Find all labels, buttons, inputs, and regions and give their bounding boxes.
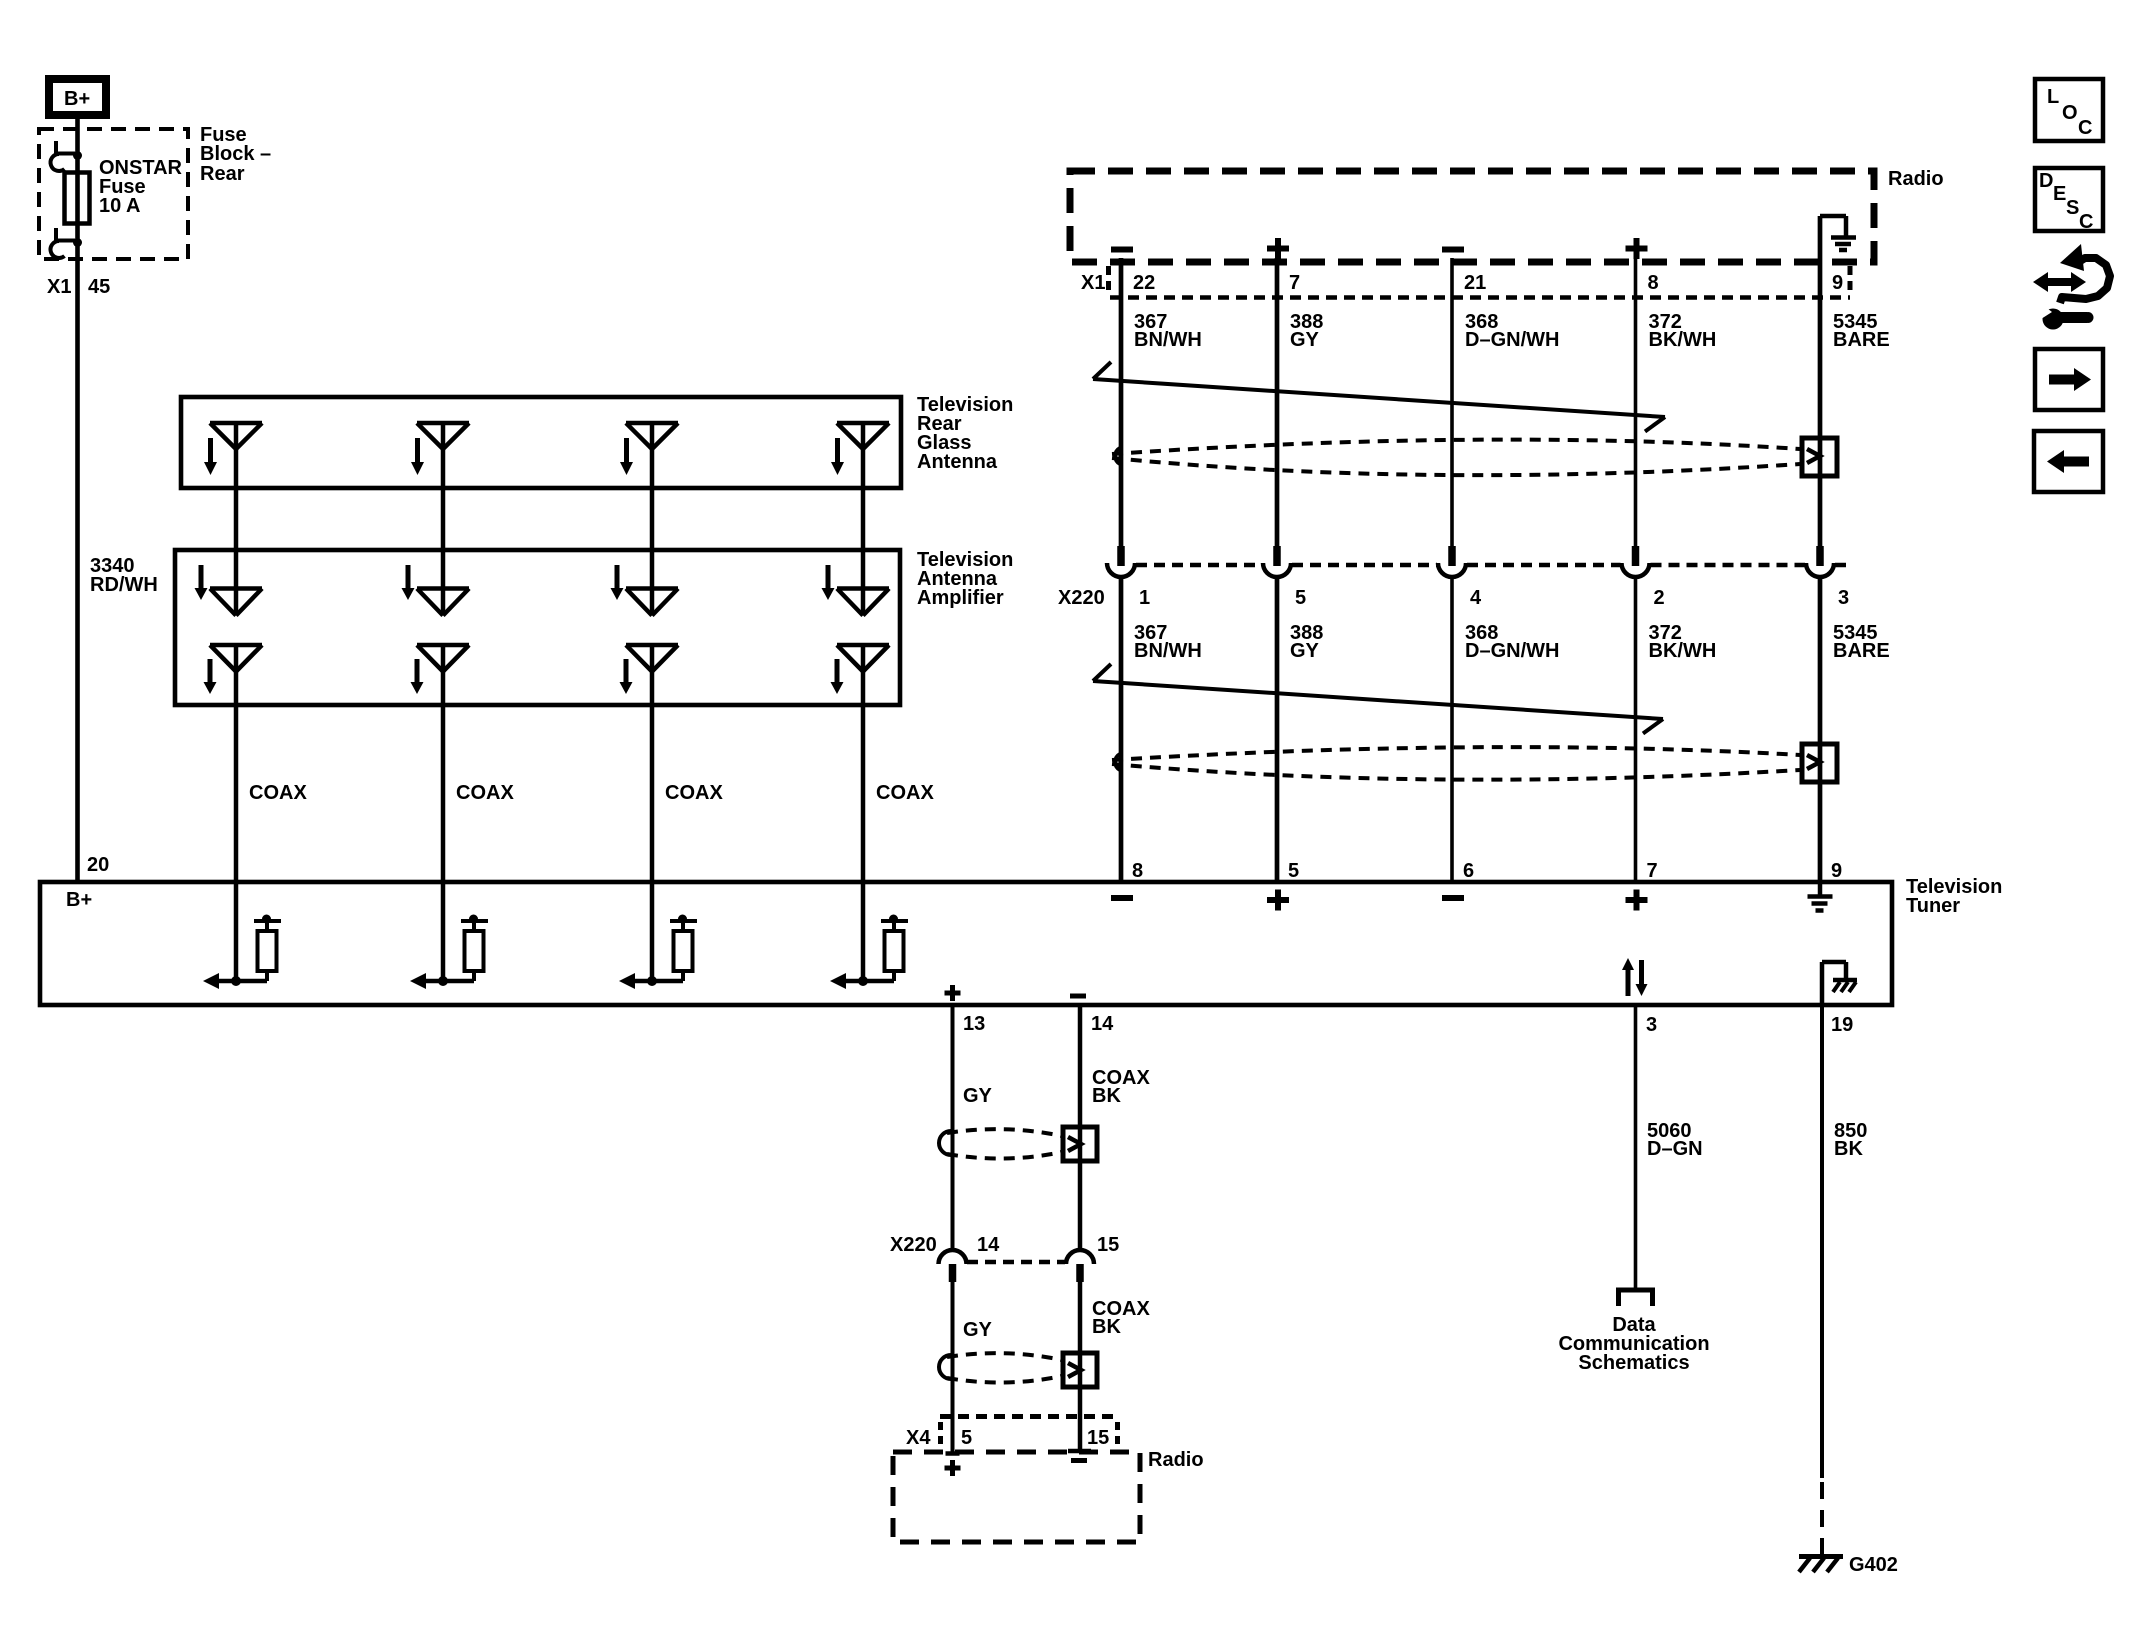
- svg-text:14: 14: [1091, 1013, 1114, 1035]
- tuner terminator network 1 (resistor + arrow): [203, 883, 281, 989]
- svg-text:4: 4: [1470, 587, 1482, 609]
- twisted pair arrow (upper): [1093, 362, 1665, 432]
- svg-text:C: C: [2079, 211, 2093, 233]
- circuit label 368 D&#8211;GN/WH (upper): [1465, 311, 1559, 351]
- svg-text:B+: B+: [66, 889, 92, 911]
- twisted pair ellipse (upper): [1112, 440, 1800, 476]
- X220 row1 terminal pin 4: [1438, 546, 1482, 609]
- wire 3 X220 to tuner: [1450, 577, 1454, 883]
- shield drain box (upper): [1802, 438, 1837, 476]
- radio terminal - (X4 pin 15): [1068, 1451, 1091, 1461]
- wire COAX BK tuner pin 14: [1078, 1005, 1083, 1250]
- svg-text:C: C: [2078, 117, 2092, 139]
- label Television Antenna Amplifier: [917, 549, 1013, 609]
- icon LOC: [2035, 79, 2103, 141]
- circuit label 367 BN/WH (lower): [1134, 622, 1202, 662]
- twisted pair ellipse (lower): [1112, 747, 1800, 780]
- wire 1 radio to X220: [1119, 258, 1124, 546]
- svg-text:Block –: Block –: [200, 143, 271, 165]
- svg-text:BK: BK: [1834, 1138, 1863, 1160]
- svg-text:D–GN/WH: D–GN/WH: [1465, 640, 1559, 662]
- svg-text:X220: X220: [890, 1234, 937, 1256]
- svg-text:20: 20: [87, 854, 109, 876]
- shield drain box (pin15 lower): [1063, 1353, 1097, 1387]
- svg-text:15: 15: [1097, 1234, 1119, 1256]
- svg-text:E: E: [2053, 183, 2066, 205]
- svg-text:Schematics: Schematics: [1578, 1352, 1689, 1374]
- circuit label 388 GY (upper): [1290, 311, 1323, 351]
- amplifier output antenna 1: [204, 645, 263, 883]
- tuner chassis ground (pin 19): [1822, 962, 1857, 1003]
- wire COAX BK X220 to radio: [1078, 1282, 1083, 1449]
- radio dashed box (bottom): [893, 1452, 1140, 1542]
- svg-text:6: 6: [1463, 860, 1474, 882]
- television antenna amplifier box: [175, 550, 900, 705]
- svg-text:B+: B+: [64, 88, 90, 110]
- tuner terminator network 3 (resistor + arrow): [619, 883, 697, 989]
- fuse block - rear dashed box: [39, 129, 188, 259]
- tuner pin 14 polarity -: [1070, 994, 1086, 999]
- svg-text:5: 5: [1295, 587, 1306, 609]
- svg-text:BK/WH: BK/WH: [1649, 329, 1717, 351]
- connector X220 row 1 dashed line: [1136, 563, 1852, 568]
- label Television Tuner: [1906, 876, 2002, 917]
- glass antenna element 3: [620, 423, 678, 590]
- icon connector wrench: [2030, 244, 2110, 330]
- svg-text:13: 13: [963, 1013, 985, 1035]
- tuner terminator network 4 (resistor + arrow): [830, 883, 908, 989]
- wire GY tuner pin 13: [951, 1005, 955, 1250]
- tuner terminator network 2 (resistor + arrow): [410, 883, 488, 989]
- svg-text:BK/WH: BK/WH: [1649, 640, 1717, 662]
- radio polarity mark - (pin row): [1442, 247, 1464, 253]
- X220 row1 terminal pin 5: [1263, 546, 1306, 609]
- svg-text:5: 5: [1288, 860, 1299, 882]
- amplifier output antenna 4: [831, 645, 890, 883]
- svg-text:X1: X1: [1081, 272, 1105, 294]
- svg-text:Rear: Rear: [200, 163, 245, 185]
- X220 row1 terminal pin 1: [1107, 546, 1150, 609]
- svg-text:15: 15: [1087, 1427, 1109, 1449]
- radio internal ground (earth symbol): [1820, 216, 1856, 250]
- tuner polarity mark +: [1267, 890, 1289, 911]
- svg-text:G402: G402: [1849, 1554, 1898, 1576]
- connector X1 pin 45 labels: [47, 276, 110, 298]
- connector X1 dashed line: [1110, 295, 1850, 300]
- svg-text:GY: GY: [963, 1085, 993, 1107]
- connector X220 row 2: [890, 1234, 1119, 1262]
- svg-text:21: 21: [1464, 272, 1486, 294]
- circuit label 5345 BARE (upper): [1833, 311, 1890, 351]
- circuit label 372 BK/WH (lower): [1649, 622, 1717, 662]
- svg-text:8: 8: [1648, 272, 1659, 294]
- svg-text:14: 14: [977, 1234, 1000, 1256]
- radio polarity mark - (pin row): [1111, 247, 1133, 253]
- svg-text:BK: BK: [1092, 1316, 1121, 1338]
- radio polarity mark + (pin row): [1626, 238, 1648, 259]
- power symbol B+: [49, 79, 106, 115]
- svg-text:D–GN: D–GN: [1647, 1138, 1703, 1160]
- svg-text:Antenna: Antenna: [917, 451, 998, 473]
- svg-text:BN/WH: BN/WH: [1134, 329, 1202, 351]
- label Fuse Block - Rear: [200, 124, 271, 185]
- svg-text:5: 5: [961, 1427, 972, 1449]
- svg-text:7: 7: [1289, 272, 1300, 294]
- svg-text:D: D: [2039, 170, 2053, 192]
- circuit label 388 GY (lower): [1290, 622, 1323, 662]
- tuner pin 13 polarity +: [945, 985, 961, 1001]
- svg-text:3: 3: [1646, 1014, 1657, 1036]
- television rear glass antenna box: [181, 397, 901, 488]
- svg-text:BN/WH: BN/WH: [1134, 640, 1202, 662]
- icon DESC: [2035, 168, 2103, 233]
- svg-text:X220: X220: [1058, 587, 1105, 609]
- amplifier input antenna 4 (inverted): [822, 565, 890, 616]
- X220 row2 terminal 15: [1066, 1250, 1094, 1282]
- connector X4: [906, 1417, 1120, 1450]
- svg-text:Radio: Radio: [1148, 1449, 1204, 1471]
- wire 4 radio to X220: [1634, 258, 1638, 546]
- circuit label 5345 BARE (lower): [1833, 622, 1890, 662]
- tuner earth ground (pin 9): [1808, 883, 1833, 911]
- label 3340 RD/WH: [90, 555, 158, 596]
- svg-text:COAX: COAX: [876, 782, 934, 804]
- svg-text:BK: BK: [1092, 1085, 1121, 1107]
- radio dashed box: [1070, 171, 1874, 262]
- glass antenna element 4: [831, 423, 889, 590]
- wire 4 X220 to tuner: [1634, 577, 1638, 883]
- X220 row2 terminal 14: [939, 1250, 967, 1282]
- twisted pair arrow (lower): [1093, 664, 1663, 734]
- wire 5 radio to X220: [1818, 216, 1823, 546]
- wire 5060 D-GN (pin 3): [1634, 1005, 1638, 1288]
- circuit label 367 BN/WH (upper): [1134, 311, 1202, 351]
- svg-text:Radio: Radio: [1888, 168, 1944, 190]
- radio terminal + (X4 pin 5): [945, 1454, 961, 1477]
- wire 2 X220 to tuner: [1275, 577, 1280, 883]
- svg-text:COAX: COAX: [456, 782, 514, 804]
- amplifier output antenna 2: [411, 645, 470, 883]
- svg-text:S: S: [2066, 197, 2079, 219]
- tuner polarity mark -: [1442, 895, 1464, 901]
- svg-text:45: 45: [88, 276, 110, 298]
- icon arrow right: [2035, 349, 2103, 410]
- label Television Rear Glass Antenna: [917, 394, 1013, 473]
- svg-text:GY: GY: [1290, 640, 1320, 662]
- wire B+ feed (circuit 3340 RD/WH): [75, 119, 80, 883]
- tuner data arrows (pin 3): [1622, 958, 1648, 996]
- X220 row1 terminal pin 3: [1806, 546, 1849, 609]
- svg-text:7: 7: [1647, 860, 1658, 882]
- svg-text:BARE: BARE: [1833, 640, 1890, 662]
- svg-text:X1: X1: [47, 276, 71, 298]
- fuse clip top: [51, 141, 82, 171]
- wire 1 X220 to tuner: [1119, 577, 1124, 883]
- svg-text:X4: X4: [906, 1427, 931, 1449]
- glass antenna element 1: [204, 423, 262, 590]
- label 850 BK: [1834, 1120, 1867, 1160]
- svg-text:3: 3: [1838, 587, 1849, 609]
- wire 2 radio to X220: [1275, 258, 1280, 546]
- off-page connector (data): [1616, 1290, 1655, 1306]
- circuit label 368 D&#8211;GN/WH (lower): [1465, 622, 1559, 662]
- circuit label 372 BK/WH (upper): [1649, 311, 1717, 351]
- amplifier input antenna 1 (inverted): [195, 565, 263, 616]
- television tuner box: [40, 882, 1892, 1005]
- svg-text:RD/WH: RD/WH: [90, 574, 158, 596]
- amplifier output antenna 3: [620, 645, 679, 883]
- amplifier input antenna 3 (inverted): [611, 565, 679, 616]
- tuner polarity mark -: [1111, 895, 1133, 901]
- icon arrow left: [2034, 431, 2103, 492]
- twisted pair ellipse (pin13/14 upper): [939, 1129, 1062, 1158]
- wire 5 X220 to tuner: [1818, 577, 1823, 883]
- svg-text:9: 9: [1832, 272, 1843, 294]
- svg-text:9: 9: [1831, 860, 1842, 882]
- svg-text:22: 22: [1133, 272, 1155, 294]
- svg-text:O: O: [2062, 102, 2078, 124]
- label COAX BK (upper): [1092, 1067, 1150, 1107]
- wire 850 BK (pin 19): [1820, 1005, 1824, 1478]
- svg-text:COAX: COAX: [249, 782, 307, 804]
- svg-text:19: 19: [1831, 1014, 1853, 1036]
- svg-text:L: L: [2047, 86, 2059, 108]
- svg-text:COAX: COAX: [665, 782, 723, 804]
- fuse clip bottom: [51, 228, 82, 258]
- amplifier input antenna 2 (inverted): [402, 565, 470, 616]
- label 5060 D-GN: [1647, 1120, 1703, 1160]
- wire GY X220 to radio: [951, 1282, 955, 1452]
- radio polarity mark + (pin row): [1267, 238, 1289, 259]
- svg-text:Tuner: Tuner: [1906, 895, 1960, 917]
- svg-text:GY: GY: [963, 1319, 993, 1341]
- svg-text:8: 8: [1132, 860, 1143, 882]
- svg-text:Amplifier: Amplifier: [917, 587, 1004, 609]
- tuner polarity mark +: [1626, 890, 1648, 911]
- shield drain box (pin14 upper): [1063, 1127, 1097, 1161]
- fuse ONSTAR Fuse 10 A: [65, 157, 183, 224]
- svg-text:GY: GY: [1290, 329, 1320, 351]
- shield drain box (lower): [1802, 744, 1837, 782]
- label COAX BK (lower): [1092, 1298, 1150, 1338]
- chassis ground G402: [1799, 1557, 1843, 1573]
- wire 850 BK dashed tail: [1820, 1482, 1824, 1556]
- twisted pair ellipse (pin13/14 lower): [939, 1353, 1062, 1382]
- svg-text:BARE: BARE: [1833, 329, 1890, 351]
- glass antenna element 2: [411, 423, 469, 590]
- svg-text:10 A: 10 A: [99, 195, 141, 217]
- svg-text:2: 2: [1654, 587, 1665, 609]
- svg-text:D–GN/WH: D–GN/WH: [1465, 329, 1559, 351]
- svg-text:1: 1: [1139, 587, 1150, 609]
- wire 3 radio to X220: [1450, 258, 1454, 546]
- connector X1 label and separators: [1081, 266, 1850, 296]
- label Data Communication Schematics: [1558, 1314, 1709, 1374]
- X220 row1 terminal pin 2: [1622, 546, 1665, 609]
